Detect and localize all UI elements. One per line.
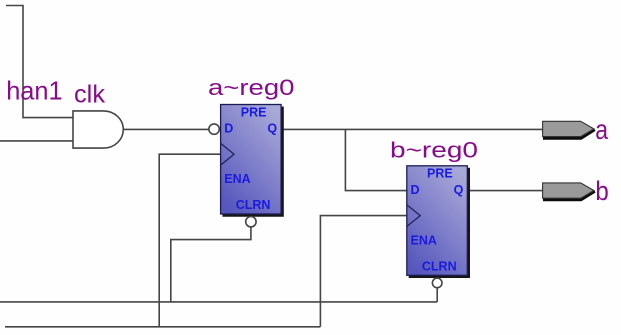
b~reg0 clock triangle [407,205,420,227]
svg-text:Q: Q [267,122,277,136]
svg-text:ENA: ENA [224,172,250,186]
b~reg0 body [407,166,468,275]
svg-text:CLRN: CLRN [236,198,271,212]
flip-flop U: a~reg0 [221,105,283,227]
a~reg0 clock triangle [221,143,234,165]
svg-text:a: a [595,114,608,145]
wire: b~reg0 CLRN to clear bus [436,288,438,302]
wire: AND bottom input from left edge [0,140,73,142]
b~reg0 CLRN bubble [432,278,442,288]
a~reg0 CLRN bubble [246,217,256,227]
wire: a~reg0 CLRN down-jog to clear bus [171,227,251,302]
svg-text:D: D [411,183,420,197]
output pin b [543,183,595,200]
a~reg0 body [221,105,282,215]
svg-text:clk: clk [74,81,105,109]
wire: clock into b~reg0 [320,216,406,327]
inverter bubble at a~reg0 D input [209,124,219,134]
wire: clear bus [0,301,437,303]
svg-text:han1: han1 [6,76,63,106]
wire: bottom clock bus [5,326,320,328]
svg-text:b: b [595,176,608,206]
wire: top-left input L into AND top input [6,6,73,118]
b~reg0 shadow [409,168,469,277]
svg-text:PRE: PRE [427,167,453,181]
svg-text:b~reg0: b~reg0 [390,138,478,163]
wire: a~reg0 Q to output pin a [281,128,542,130]
svg-text:Q: Q [454,183,464,197]
wire: b~reg0 Q to output pin b [467,190,542,192]
svg-text:PRE: PRE [241,105,267,119]
wire: AND output to a~reg0 D [123,128,220,130]
AND gate [73,111,123,148]
svg-text:CLRN: CLRN [422,260,457,274]
svg-text:a~reg0: a~reg0 [208,75,295,100]
svg-text:D: D [224,122,233,136]
output pin a [543,121,595,138]
flip-flop U: b~reg0 [407,166,469,288]
a~reg0 shadow [223,107,283,216]
wire: clock into a~reg0 (vertical riser) [159,154,220,327]
wire: branch from Q-a down to b~reg0 D [345,129,406,190]
svg-text:ENA: ENA [411,234,437,248]
